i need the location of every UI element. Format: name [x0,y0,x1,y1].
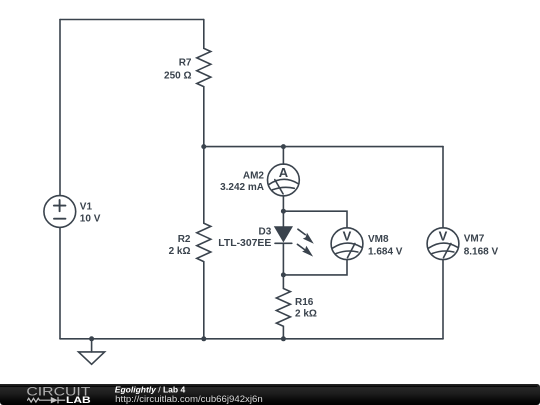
svg-text:R16: R16 [295,297,314,308]
voltage source V1 [44,196,76,228]
svg-text:2 kΩ: 2 kΩ [169,246,191,257]
wire bottom rail [60,338,443,340]
wire AM2 to VM8 top [283,211,347,228]
svg-text:V: V [343,229,352,244]
wire D3 cathode lead [282,243,284,275]
svg-text:VM8: VM8 [368,234,389,245]
svg-text:LAB: LAB [66,395,91,405]
node junction AM2/mid rail [281,144,286,149]
wire AM2 top lead [282,147,284,165]
svg-text:AM2: AM2 [243,170,265,181]
CircuitLab logo schematic line with resistor and diode [27,397,65,404]
svg-text:3.242 mA: 3.242 mA [220,182,264,193]
svg-text:R2: R2 [178,234,191,245]
wire D3 anode lead [282,211,284,227]
svg-text:V: V [439,229,448,244]
svg-text:D3: D3 [259,226,272,237]
wire VM8 bottom to R16 top [283,260,347,275]
svg-text:LTL-307EE: LTL-307EE [218,238,271,249]
footer bar [0,384,540,405]
wire VM7 top lead [442,147,444,228]
svg-text:10 V: 10 V [80,214,101,225]
LED D3 emission arrow 1 [298,229,314,244]
op-amp-style meter body: ammeter AM2 [268,164,300,196]
svg-text:R7: R7 [179,58,192,69]
resistor R2 [197,147,211,339]
wire VM7 bottom lead [442,260,444,339]
wire AM2 bottom lead [282,196,284,211]
LED D3 emission arrow 2 [297,244,313,256]
wire left rail lower [59,228,61,339]
node junction AM2/D3/VM8 [281,209,286,214]
ground [79,339,105,365]
svg-text:1.684 V: 1.684 V [368,247,403,258]
wire mid rail [204,146,443,148]
node junction ground [89,336,94,341]
svg-text:V1: V1 [80,202,93,213]
resistor R7 [197,20,211,147]
svg-text:A: A [279,165,289,180]
svg-text:8.168 V: 8.168 V [464,247,499,258]
svg-text:http://circuitlab.com/cub66j94: http://circuitlab.com/cub66j942xj6n [115,394,263,404]
svg-text:2 kΩ: 2 kΩ [295,309,317,320]
svg-text:VM7: VM7 [464,234,485,245]
node junction R16/bottom rail [281,336,286,341]
voltmeter VM7 [427,228,459,260]
resistor R16 [276,275,290,339]
node junction R7/mid rail [201,144,206,149]
node junction R2/bottom rail [201,336,206,341]
LED D3 [275,227,292,243]
wire top rail [60,19,204,21]
node junction D3/R16/VM8 [281,272,286,277]
wire left rail upper [59,20,61,196]
svg-text:Egolightly / Lab 4: Egolightly / Lab 4 [115,384,186,394]
voltmeter VM8 [331,228,363,260]
svg-text:250 Ω: 250 Ω [164,71,191,82]
